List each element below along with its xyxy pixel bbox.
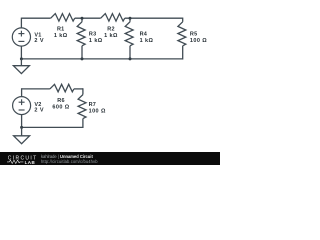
svg-text:R5: R5: [190, 31, 197, 37]
svg-text:R3: R3: [89, 31, 96, 37]
wire bottom rail circuit 1: [21, 58, 182, 60]
node junction R3 bottom: [81, 57, 84, 60]
svg-text:600 Ω: 600 Ω: [52, 104, 69, 110]
wire top rail circuit 1: [21, 17, 182, 19]
svg-text:100 Ω: 100 Ω: [89, 108, 106, 114]
voltage source V1: [12, 28, 44, 46]
wire V1 stem bottom: [20, 46, 22, 59]
node junction R4 bottom: [129, 57, 132, 60]
svg-text:2 V: 2 V: [34, 108, 44, 114]
svg-text:R6: R6: [57, 98, 64, 104]
ground circuit 1: [13, 59, 29, 74]
node junction R4 top: [129, 17, 132, 20]
resistor R3: [77, 18, 103, 59]
resistor R7: [78, 88, 106, 128]
svg-text:LAB: LAB: [25, 160, 36, 165]
resistor R6: [50, 84, 74, 110]
svg-text:1 kΩ: 1 kΩ: [104, 33, 118, 39]
svg-text:R7: R7: [89, 102, 96, 108]
svg-text:1 kΩ: 1 kΩ: [140, 38, 154, 44]
node junction R3 top: [81, 17, 84, 20]
resistor R5: [178, 18, 207, 60]
wire top rail circuit 2: [22, 88, 83, 90]
voltage source V2: [13, 97, 44, 115]
resistor R1: [51, 14, 75, 39]
node junction ground tap V1: [20, 57, 23, 60]
node junction ground tap V2: [20, 126, 23, 129]
svg-text:100 Ω: 100 Ω: [190, 38, 207, 44]
wire V2 stem top: [21, 88, 23, 96]
svg-text:R2: R2: [107, 27, 114, 33]
wire V1 stem top: [20, 18, 22, 28]
svg-text:1 kΩ: 1 kΩ: [54, 33, 68, 39]
footer bar: [0, 152, 220, 165]
svg-text:http://circuitlab.com/c/bu4hvb: http://circuitlab.com/c/bu4hvb: [41, 159, 98, 164]
footer text line 2: [41, 159, 98, 164]
svg-text:R4: R4: [140, 32, 148, 38]
svg-text:1 kΩ: 1 kΩ: [89, 38, 103, 44]
resistor R4: [125, 18, 153, 59]
footer text line 1: [41, 154, 93, 159]
wire bottom rail circuit 2: [22, 126, 83, 128]
CircuitLab logo: [7, 155, 38, 165]
svg-text:R1: R1: [57, 27, 64, 33]
ground circuit 2: [14, 127, 30, 143]
wire V2 stem bottom: [21, 115, 23, 128]
resistor R2: [101, 14, 125, 39]
svg-text:2 V: 2 V: [34, 38, 44, 44]
